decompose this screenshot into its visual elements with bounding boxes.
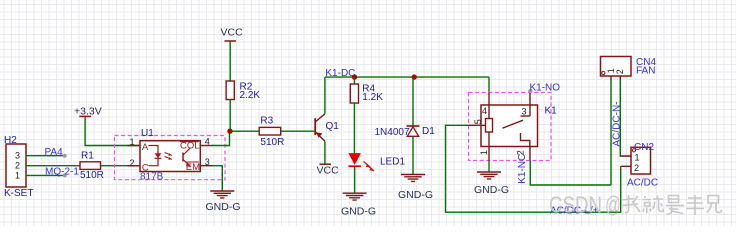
optocoupler U1 (128, 128, 214, 183)
svg-text:3: 3 (205, 157, 210, 167)
svg-text:GND-G: GND-G (474, 184, 509, 196)
svg-text:R3: R3 (260, 116, 273, 127)
svg-text:1.2K: 1.2K (362, 92, 383, 103)
wire LED1 to ground (354, 167, 356, 193)
svg-text:AC/DC: AC/DC (627, 178, 658, 189)
power port VCC at Q1 (317, 164, 340, 176)
svg-text:K1-NO: K1-NO (530, 82, 561, 93)
transistor Q1 (315, 114, 339, 142)
svg-text:Q1: Q1 (326, 121, 340, 132)
node junction R2/R3/U1 (227, 129, 232, 134)
wire rail to R4 (353, 77, 355, 84)
svg-text:D1: D1 (422, 126, 435, 137)
wire U1 pin3 to ground (212, 166, 222, 191)
svg-text:GND-G: GND-G (398, 189, 433, 201)
svg-text:U1: U1 (141, 128, 154, 139)
svg-text:5: 5 (473, 119, 483, 124)
power port VCC top (221, 27, 244, 42)
svg-text:510R: 510R (80, 170, 104, 181)
wire U1 pin4 to junction (212, 131, 230, 145)
wire +3.3V to U1 pin 1 (85, 120, 140, 146)
relay K1 (469, 93, 558, 161)
svg-text:817B: 817B (140, 172, 164, 183)
node K1-DC (325, 68, 357, 80)
wire H2 pin3 stub (26, 155, 63, 157)
power port +3.3V (74, 106, 102, 121)
wire VCC to R2 (229, 41, 231, 81)
op-amp U1 dashed box (115, 136, 226, 180)
svg-text:1: 1 (129, 137, 134, 147)
ground GND-G under LED1 (341, 193, 376, 217)
wire R1 to U1 pin 2 (101, 165, 141, 167)
wire R3 to Q1 base (281, 130, 316, 132)
ground GND-G under U1 (206, 191, 241, 213)
wire CN4 pin1 down (610, 79, 612, 185)
wire K1 pin5 net AC/DC-L/+ (446, 125, 621, 212)
wire H2 pin2 to R1 (26, 165, 80, 167)
watermark hanzi strokes (621, 195, 722, 215)
svg-text:VCC: VCC (317, 165, 340, 177)
svg-text:VCC: VCC (221, 27, 244, 39)
wire D1 to ground (412, 136, 414, 174)
svg-text:CSDN: CSDN (549, 192, 602, 218)
diode D1 (375, 126, 436, 138)
svg-text:GND-G: GND-G (341, 206, 376, 218)
svg-text:LED1: LED1 (380, 157, 405, 168)
svg-text:CN2: CN2 (634, 142, 654, 153)
connector CN4 (601, 57, 657, 81)
LED LED1 (348, 153, 405, 171)
svg-text:K1: K1 (545, 106, 558, 117)
svg-text:FAN: FAN (636, 66, 655, 77)
node MQ-2-1 (45, 167, 79, 178)
watermark CSDN (549, 192, 621, 218)
svg-text:2: 2 (634, 163, 639, 173)
svg-text:1: 1 (479, 150, 489, 155)
relay K1 dashed box (469, 93, 552, 161)
svg-text:2: 2 (615, 69, 625, 74)
svg-text:4: 4 (205, 137, 210, 147)
svg-text:510R: 510R (260, 137, 284, 148)
wire junction to R3 (230, 130, 259, 132)
node K1-NO (528, 82, 560, 93)
svg-text:@: @ (605, 192, 621, 218)
wire rail to K1 pin 4 (488, 77, 490, 92)
wire K1 pin1 to ground (488, 161, 490, 172)
wire CN4 pin2 to CN2 pin1 (620, 79, 631, 156)
svg-text:1N4007: 1N4007 (375, 127, 410, 138)
svg-text:2: 2 (129, 158, 134, 168)
ground GND-G under D1 (398, 175, 433, 202)
svg-text:2.2K: 2.2K (240, 90, 261, 101)
node PA4 (45, 147, 67, 158)
node D1 junction (412, 74, 417, 79)
wire Q1 collector to K1-DC rail (324, 77, 326, 114)
svg-text:3: 3 (15, 150, 20, 160)
wire rail to D1 (412, 77, 414, 126)
wire K1 pin2 to CN4 pin1 net (530, 161, 611, 186)
svg-text:1: 1 (15, 170, 20, 180)
wire H2 pin1 stub (26, 174, 63, 176)
wire Q1 emitter to VCC (324, 141, 326, 164)
svg-text:3: 3 (522, 107, 527, 117)
svg-text:PA4: PA4 (45, 147, 64, 158)
resistor R2 (226, 81, 260, 101)
svg-text:K1-NC: K1-NC (517, 154, 528, 184)
svg-text:GND-G: GND-G (206, 201, 241, 213)
wire K1-DC rail (325, 76, 489, 78)
svg-text:K-SET: K-SET (4, 188, 33, 199)
connector H2 (4, 135, 33, 199)
resistor R3 (259, 116, 284, 148)
svg-text:MQ-2-1: MQ-2-1 (45, 167, 79, 178)
wire R2 to junction (229, 100, 231, 132)
svg-text:R1: R1 (81, 151, 94, 162)
svg-text:K1-DC: K1-DC (325, 68, 355, 79)
svg-text:2: 2 (15, 160, 20, 170)
resistor R1 (80, 151, 104, 182)
svg-text:A: A (142, 142, 149, 153)
svg-text:1: 1 (635, 153, 640, 163)
svg-text:4: 4 (482, 106, 487, 116)
ground GND-G under K1 (474, 172, 509, 196)
connector CN2 (621, 142, 659, 189)
wire R4 to LED1 (353, 103, 355, 153)
resistor R4 (350, 84, 383, 104)
